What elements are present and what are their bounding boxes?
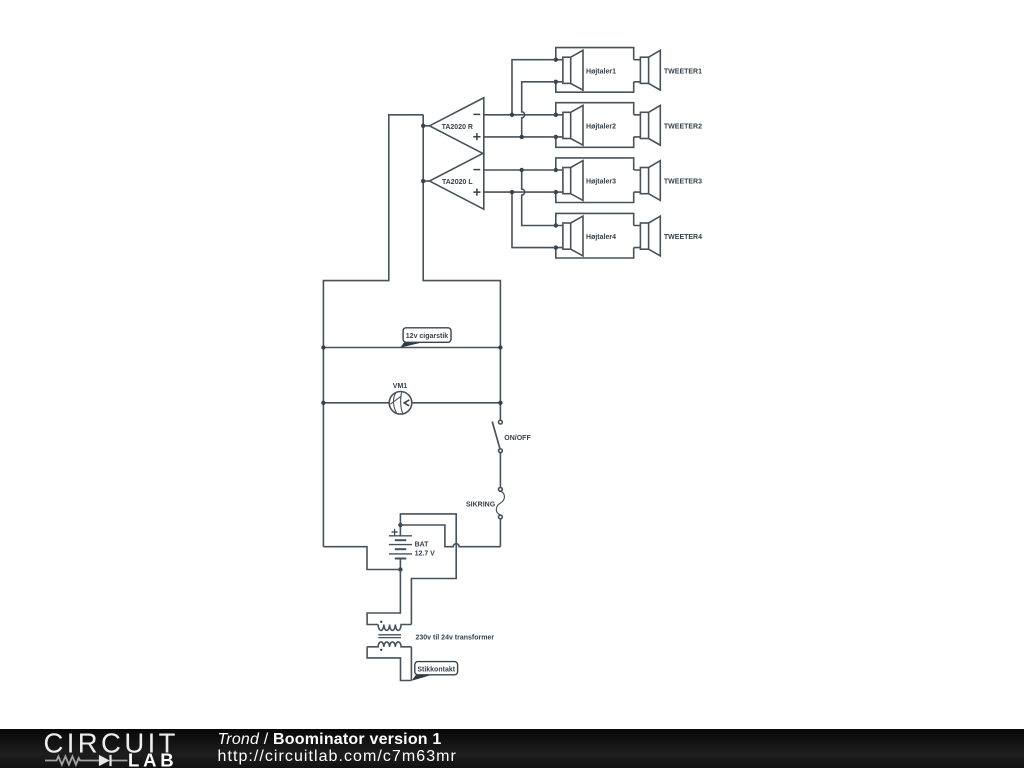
node junctions 12v row [321,345,502,349]
svg-text:230v til 24v transformer: 230v til 24v transformer [416,635,495,642]
node junctions at battery terminals [398,523,402,572]
label pointer 12v cigarstik [400,342,422,347]
svg-text:12v cigarstik: 12v cigarstik [406,333,449,340]
wire branch down to Hojtaler4 top (hops over crossing wire) [522,170,556,226]
node junctions at Hojtaler3 inputs [554,168,558,195]
wire fuse down to battery row [499,519,501,547]
pin label minus (U1) [473,113,480,115]
logo diode [99,754,110,765]
battery BAT [389,525,412,570]
speaker Hojtaler2 (box with driver) [556,103,641,148]
wire secondary left hook to plug [367,647,411,681]
node junctions at amp apexes [421,124,425,184]
tweeter TWEETER2 [640,105,660,145]
wire battery plus to transformer primary right [400,514,456,625]
wire branch up to Hojtaler1 bottom (hops over crossing wire) [522,82,556,137]
wire amp apex rail down to right rail [423,115,500,420]
label pointer Stikkontakt [412,675,432,681]
wire battery minus down to transformer primary left [367,570,400,625]
svg-text:ON/OFF: ON/OFF [504,435,531,442]
tweeter TWEETER3 [640,161,660,201]
svg-text:TWEETER1: TWEETER1 [664,68,702,75]
wire U1 minus output to Hojtaler2 top [484,114,556,116]
wire secondary right down to plug [410,647,412,681]
wire U1 plus output to Hojtaler2 bottom [484,136,556,138]
svg-text:Højtaler3: Højtaler3 [586,179,616,186]
label box Stikkontakt [415,662,458,675]
wire 12v cigarstik row [323,347,500,349]
svg-text:TA2020 R: TA2020 R [442,124,473,131]
svg-text:TWEETER2: TWEETER2 [664,124,702,131]
svg-text:SIKRING: SIKRING [466,501,496,508]
pin label minus (U2) [473,169,480,171]
pin label plus (U2) [473,189,480,196]
svg-text:TWEETER3: TWEETER3 [664,179,702,186]
footer bar [0,729,1024,769]
node junctions at Hojtaler4 inputs [554,223,558,250]
op-amp U1 TA2020 R [430,98,484,154]
wire VM1 row [323,402,500,404]
transformer phase dots [380,621,382,651]
logo resistor zigzag [45,756,128,764]
wire fuse row to battery plus (hops over crossing wire) [400,525,500,547]
svg-text:Stikkontakt: Stikkontakt [417,666,455,673]
speaker Hojtaler4 (box with driver) [556,213,641,258]
speaker Hojtaler1 (box with driver) [556,48,641,93]
switch SW ON/OFF [492,420,502,452]
wire battery minus to left rail [323,547,400,570]
svg-text:VM1: VM1 [393,383,408,390]
wire branch down to Hojtaler4 bottom [512,192,556,248]
label battery plus sign [392,529,398,535]
speaker Hojtaler3 (box with driver) [556,158,641,203]
wire U2 plus output to Hojtaler3 bottom [484,191,556,193]
transformer T1 core [378,635,401,638]
transformer T1 secondary winding [367,642,411,647]
svg-text:Højtaler4: Højtaler4 [586,234,616,241]
node junctions VM1 row [321,401,502,405]
node junctions at Hojtaler2 inputs [554,113,558,139]
transformer T1 primary winding [378,625,411,631]
fuse SIKRING [496,487,504,518]
svg-text:12.7 V: 12.7 V [415,550,436,557]
svg-text:BAT: BAT [415,541,430,548]
node junctions at Hojtaler1 inputs [554,58,558,85]
svg-text:Højtaler2: Højtaler2 [586,124,616,131]
svg-text:LAB: LAB [128,749,177,769]
wire U2 minus output to Hojtaler3 top [484,169,556,171]
svg-text:TWEETER4: TWEETER4 [664,234,702,241]
node junctions on amp output wires [510,113,524,195]
wire amp input rail down left side [323,115,423,547]
wire stubs from rail to amp apexes [423,126,429,181]
tweeter TWEETER4 [640,216,660,256]
footer url text [218,748,457,766]
wire branch up to Hojtaler1 top [512,60,556,115]
wire switch to fuse [499,453,501,488]
CircuitLab logo [0,729,200,769]
tweeter TWEETER1 [640,50,660,90]
op-amp U2 TA2020 L [430,153,484,209]
svg-text:TA2020 L: TA2020 L [442,179,473,186]
pin label plus (U1) [473,133,480,140]
voltmeter VM1 [389,392,412,415]
label box 12v cigarstik [403,328,451,343]
footer title text [218,731,442,749]
svg-text:Højtaler1: Højtaler1 [586,68,616,75]
